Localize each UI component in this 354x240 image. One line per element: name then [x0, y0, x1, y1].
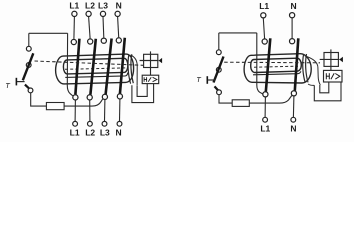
switch blade right pole1 — [266, 38, 271, 92]
wire right resistor to pole N mid contact — [249, 96, 291, 104]
svg-text:L3: L3 — [98, 1, 108, 11]
electronics box IΔ> (right device) — [324, 70, 343, 82]
terminal circle N top right — [290, 13, 295, 18]
contact circle pole2 — [88, 39, 93, 44]
hidden edge dashed line inside right core — [254, 66, 298, 67]
terminal circle L1 bottom right — [263, 117, 268, 122]
mechanical linkage dashed line (left device) — [35, 61, 144, 65]
terminal circle L1 top — [72, 11, 77, 16]
contact circle right pole1 — [262, 39, 267, 44]
winding lead to electronics (upper) — [131, 55, 138, 85]
contact circle pole4 — [116, 38, 121, 43]
toroidal core CT (right device) — [244, 54, 311, 83]
wire resistor to pole3 mid contact — [64, 99, 103, 106]
test button actuator link (right) — [208, 79, 216, 81]
contact circle right pole2 — [290, 39, 295, 44]
winding lead to electronics (upper, right) — [305, 56, 321, 85]
resistor R test (right device) — [232, 100, 249, 107]
terminal circle L2 top — [86, 11, 91, 16]
glyph slash (in left box) — [148, 77, 151, 82]
terminal circle N bottom right — [291, 117, 296, 122]
terminal circle N top — [115, 11, 120, 16]
resistor R test (left device) — [46, 103, 64, 110]
test button actuator bar (right) — [206, 76, 208, 84]
wire L1 top to contact — [73, 17, 76, 39]
mid contact circle pole1 — [73, 95, 78, 100]
contact circle pole3 — [101, 38, 106, 43]
svg-text:L1: L1 — [259, 1, 269, 11]
test button T contact upper (right) — [216, 50, 221, 55]
mechanical linkage dashed line (right device) — [224, 61, 320, 64]
test button actuator bar — [15, 78, 17, 86]
wire pole3 to bottom terminal — [104, 99, 106, 121]
wire from right T top contact up — [218, 33, 220, 50]
svg-text:N: N — [116, 1, 122, 11]
glyph slash (in right box) — [331, 73, 334, 79]
test lower contact circle (right) — [217, 90, 222, 95]
secondary winding right core — [303, 54, 305, 82]
wire L1 right top to contact — [263, 18, 264, 39]
mid contact circle right pole1 — [263, 92, 268, 97]
mid contact circle right pole2 — [291, 91, 296, 96]
wire right test branch down through core — [257, 33, 263, 94]
test button T contact lower (right) — [216, 67, 221, 72]
secondary winding on core right limb — [128, 54, 131, 83]
glyph I (in left box) — [144, 77, 147, 82]
terminal circle L3 top — [100, 11, 105, 16]
trip coil U1 (cross square, left device) — [140, 51, 159, 75]
mid contact circle pole2 — [87, 95, 92, 100]
wire from T top contact up — [28, 33, 30, 46]
glyph I (in right box) — [326, 73, 329, 79]
secondary winding turn 2 — [131, 54, 133, 83]
terminal circle L2 bottom — [88, 121, 93, 126]
test lower blade tick (right) — [215, 86, 219, 90]
wire right pole1 to bottom terminal — [264, 97, 266, 117]
test button T contact upper — [26, 46, 31, 51]
svg-text:L2: L2 — [85, 128, 95, 138]
svg-text:N: N — [116, 128, 122, 138]
terminal circle L1 bottom — [73, 121, 78, 126]
toroidal core CT (left device) — [56, 54, 134, 84]
wire pole1 to bottom terminal — [74, 100, 76, 121]
trip actuator triangle (right) — [339, 57, 343, 62]
contact circle pole1 — [71, 39, 76, 44]
wire test branch down through core — [67, 33, 73, 96]
switch blade pole3 — [106, 39, 112, 95]
svg-text:L1: L1 — [260, 123, 270, 133]
switch blade pole4 — [120, 38, 125, 94]
wire top horizontal of test branch — [29, 32, 68, 34]
test button actuator link — [17, 81, 25, 83]
winding lead wire inner U (right device) — [320, 82, 329, 93]
terminal circle L3 bottom — [102, 121, 107, 126]
glyph greater-than (in right box) — [335, 74, 340, 80]
switch blade right pole2 — [295, 38, 299, 91]
svg-text:N: N — [291, 1, 297, 11]
wire top horizontal of right test branch — [219, 32, 257, 34]
wire N right top to contact — [291, 18, 293, 39]
wire from right test lower contact to resistor — [219, 95, 232, 103]
wire L3 top to contact — [102, 17, 105, 38]
wire pole4 to bottom terminal — [119, 99, 121, 121]
svg-text:L1: L1 — [70, 128, 80, 138]
wire right pole2 to bottom terminal — [292, 96, 295, 117]
svg-text:N: N — [290, 123, 296, 133]
winding lead hook to outer U (right device) — [308, 84, 314, 85]
winding lead wire outer U (right device) — [314, 82, 341, 101]
terminal circle N bottom — [117, 121, 122, 126]
secondary winding right core turn 2 — [306, 54, 308, 82]
electronics box IΔ> (left device) — [142, 75, 159, 83]
mid contact circle pole3 — [102, 94, 107, 99]
glyph greater-than (in left box) — [153, 77, 157, 81]
terminal circle L1 top right — [261, 13, 266, 18]
test button blade — [23, 53, 34, 80]
winding lead wire outer U (left device) — [132, 84, 154, 103]
wire from test lower contact to resistor — [31, 93, 47, 106]
svg-text:L2: L2 — [85, 1, 95, 11]
test button T contact lower — [26, 63, 31, 68]
test lower contact circle — [28, 88, 33, 93]
svg-text:L3: L3 — [100, 128, 110, 138]
wire L2 top to contact — [89, 17, 91, 39]
wire N top to contact — [118, 17, 119, 38]
trip actuator triangle — [159, 58, 163, 63]
trip coil U2 (cross square, right device) — [320, 49, 340, 70]
test button blade (right) — [214, 57, 224, 83]
svg-text:L1: L1 — [69, 1, 79, 11]
hidden edge dashed line inside core — [65, 68, 127, 69]
switch blade pole1 — [75, 39, 79, 95]
wire pole2 to bottom terminal — [89, 100, 91, 121]
mid contact circle pole4 — [117, 94, 122, 99]
winding lead wire inner U (left device) — [137, 84, 147, 97]
test lower blade tick — [25, 85, 29, 89]
switch blade pole2 — [90, 39, 95, 95]
